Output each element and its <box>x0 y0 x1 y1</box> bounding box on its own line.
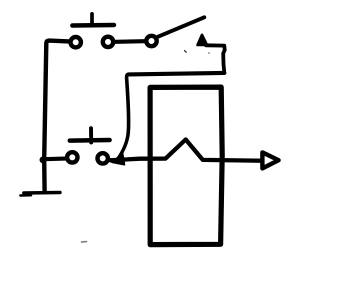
ground <box>20 193 60 196</box>
pushbutton S2 terminal 2 <box>98 153 108 163</box>
pushbutton S1 terminal 2 <box>103 37 113 47</box>
node B arrowhead <box>112 154 124 165</box>
pushbutton S1 (top): actuator bar <box>72 14 114 26</box>
wire node A down to ground <box>42 160 47 191</box>
switch S3 pivot terminal <box>146 36 156 46</box>
wire S1 to switch S3 <box>116 39 145 44</box>
pushbutton S1 terminal 1 <box>71 37 81 47</box>
wire S3 contact to corner down <box>206 45 225 73</box>
pushbutton S2 (bottom): actuator bar <box>70 128 110 142</box>
stray speck 1 <box>185 51 187 53</box>
stray gray dash <box>82 241 87 244</box>
switch S3 lever <box>158 17 204 36</box>
wire through line with peak element <box>110 140 261 161</box>
switch S3 fixed contact triangle <box>198 35 208 45</box>
output open arrowhead <box>262 152 278 168</box>
wire node A to pushbutton S2 left terminal <box>44 157 65 162</box>
wire diagonal drop to node B <box>118 74 129 159</box>
pushbutton S2 terminal 1 <box>67 152 77 162</box>
wire left rail from top corner down to node A <box>44 41 69 159</box>
node A junction dot <box>40 157 47 164</box>
wire horizontal upper bus <box>129 73 225 75</box>
box U1 outline <box>150 87 222 245</box>
stray speck 2 <box>208 52 210 54</box>
